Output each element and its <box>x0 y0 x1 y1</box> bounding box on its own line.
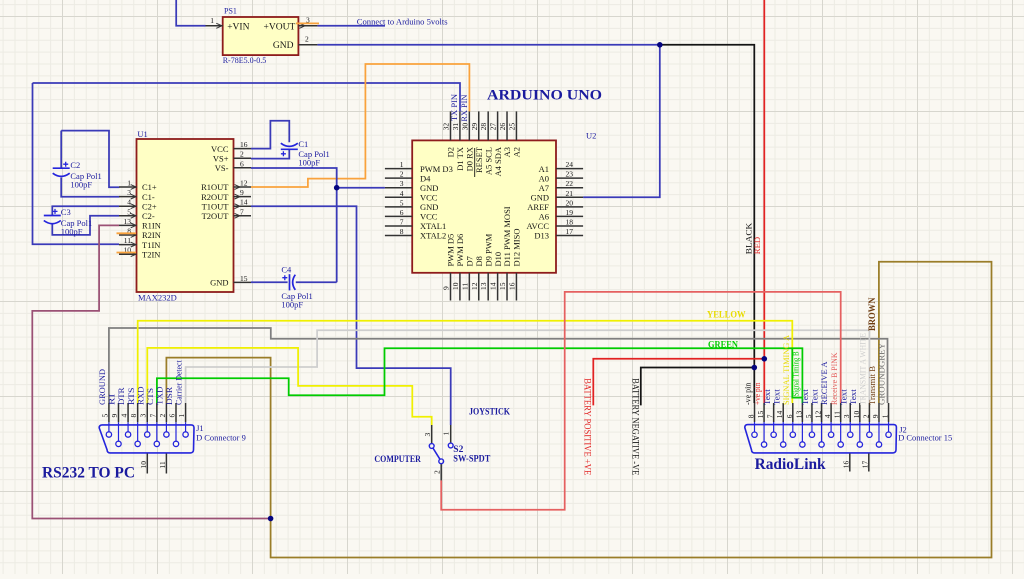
svg-text:19: 19 <box>566 208 574 217</box>
svg-text:3: 3 <box>400 179 404 188</box>
svg-text:10: 10 <box>852 410 861 418</box>
svg-text:16: 16 <box>507 282 516 290</box>
svg-text:C3: C3 <box>61 207 71 217</box>
svg-text:RECEIVE A: RECEIVE A <box>819 361 829 405</box>
svg-text:Text: Text <box>848 389 858 405</box>
svg-text:15: 15 <box>240 274 248 283</box>
capacitor C3 <box>44 207 92 237</box>
svg-text:30: 30 <box>460 123 469 131</box>
wire PS1 GND net (blue) <box>317 44 659 46</box>
svg-text:100pF: 100pF <box>298 158 320 168</box>
svg-text:2: 2 <box>861 414 870 418</box>
wire yellow J1 RTS to J2 SIGNAL TIMING A <box>138 321 793 403</box>
svg-text:14: 14 <box>775 410 784 418</box>
wire BATTERY POSITIVE stub <box>593 359 764 406</box>
label S2 / SW-SPDT <box>453 445 491 465</box>
svg-text:8: 8 <box>400 227 404 236</box>
svg-text:Carrier Detect: Carrier Detect <box>174 360 184 405</box>
wire BATTERY NEGATIVE stub <box>641 368 755 406</box>
wire brown J1 TXD to J2 Transmit B <box>166 262 991 558</box>
junction black battery <box>752 365 758 371</box>
svg-text:S2: S2 <box>453 445 463 455</box>
svg-text:22: 22 <box>566 179 574 188</box>
svg-text:8: 8 <box>747 414 756 418</box>
svg-text:100pF: 100pF <box>281 300 303 310</box>
svg-text:AREF: AREF <box>527 202 549 212</box>
svg-text:7: 7 <box>240 207 244 216</box>
svg-text:3: 3 <box>139 414 148 418</box>
wire C4 right side <box>296 281 337 283</box>
svg-text:AVCC: AVCC <box>526 221 549 231</box>
svg-text:T1IN: T1IN <box>142 240 160 250</box>
svg-text:10: 10 <box>451 282 460 290</box>
svg-text:GND: GND <box>273 41 294 51</box>
svg-text:28: 28 <box>479 123 488 131</box>
wire C3 bottom to U1 C2- <box>52 216 119 235</box>
J1 pin circles and links <box>106 422 188 446</box>
svg-text:R2OUT: R2OUT <box>201 192 229 202</box>
svg-text:12: 12 <box>470 282 479 290</box>
J1 pin stubs <box>109 403 186 422</box>
svg-text:D Connector 9: D Connector 9 <box>196 433 246 443</box>
svg-text:16: 16 <box>841 461 850 469</box>
svg-text:5: 5 <box>100 414 109 418</box>
svg-text:6: 6 <box>167 414 176 418</box>
svg-text:26: 26 <box>498 123 507 131</box>
J2 pin 16 <box>841 454 850 472</box>
J2 pin numbers <box>747 410 890 418</box>
wire white J1 Carrier Detect to J2 TRANSMIT A <box>186 330 870 403</box>
svg-text:U1: U1 <box>137 129 147 139</box>
wire from top edge to PS1 +VIN <box>176 0 205 26</box>
svg-text:3: 3 <box>127 188 131 197</box>
svg-text:PS1: PS1 <box>224 7 237 16</box>
svg-text:15: 15 <box>498 282 507 290</box>
S2 pin numbers <box>423 432 451 475</box>
svg-text:DTR: DTR <box>116 387 126 405</box>
svg-text:12: 12 <box>814 410 823 418</box>
svg-text:D13: D13 <box>534 231 549 241</box>
PS1 pin 3 <box>296 16 319 29</box>
svg-text:2: 2 <box>240 150 244 159</box>
svg-text:R-78E5.0-0.5: R-78E5.0-0.5 <box>223 56 267 65</box>
svg-text:2: 2 <box>158 414 167 418</box>
wire C2 bottom to U1 C1- <box>61 178 119 197</box>
svg-text:2: 2 <box>400 170 404 179</box>
svg-text:RED: RED <box>752 237 762 254</box>
wire U1 T1IN to U2 D1 TX (top) <box>33 83 461 111</box>
wire U1 T1OUT to S2 pin 1 <box>251 206 451 425</box>
svg-text:BROWN: BROWN <box>868 297 878 331</box>
capacitor C2 <box>53 160 102 189</box>
svg-text:TX PIN: TX PIN <box>450 94 459 121</box>
svg-text:16: 16 <box>240 140 248 149</box>
svg-text:VS-: VS- <box>215 163 229 173</box>
wire RED net to J2 pin 15 <box>763 0 765 403</box>
J2 pin labels <box>743 333 887 405</box>
svg-text:5: 5 <box>127 207 131 216</box>
svg-text:R1IN: R1IN <box>142 221 161 231</box>
svg-text:C4: C4 <box>281 265 292 275</box>
svg-text:VCC: VCC <box>420 193 438 203</box>
svg-text:+VOUT: +VOUT <box>264 23 296 33</box>
svg-text:32: 32 <box>442 123 451 131</box>
U1 right pins 16,2,6,12,9,14,7,15 <box>201 140 251 288</box>
svg-text:BATTERY POSITIVE +VE: BATTERY POSITIVE +VE <box>583 378 593 475</box>
svg-text:100pF: 100pF <box>61 227 83 237</box>
svg-text:8: 8 <box>129 414 138 418</box>
J1 pin numbers <box>100 414 186 418</box>
underline for D0 RX pin name <box>474 148 476 177</box>
connector J1 D Connector 9 body <box>99 425 194 453</box>
svg-text:-ve pin: -ve pin <box>743 382 753 405</box>
svg-text:SIGNAL TIMING A: SIGNAL TIMING A <box>781 334 791 405</box>
svg-text:GROUNDGREY: GROUNDGREY <box>877 343 887 405</box>
svg-text:ARDUINO UNO: ARDUINO UNO <box>487 88 602 104</box>
U2 top pins 32-25 <box>442 111 522 176</box>
svg-text:13: 13 <box>124 217 132 226</box>
svg-text:GND: GND <box>420 202 438 212</box>
svg-text:29: 29 <box>470 123 479 131</box>
svg-text:Text: Text <box>771 389 781 405</box>
J1 pin 11 <box>158 454 167 474</box>
svg-text:DSR: DSR <box>164 387 174 405</box>
svg-text:11: 11 <box>833 411 842 418</box>
IC U2 Arduino Uno body <box>412 140 556 272</box>
svg-text:1: 1 <box>177 414 186 418</box>
svg-text:Text: Text <box>838 389 848 405</box>
svg-text:D12 MISO: D12 MISO <box>512 228 522 266</box>
svg-text:GND: GND <box>531 193 549 203</box>
PS1 pin 1 <box>206 16 223 28</box>
svg-text:VS+: VS+ <box>213 153 229 163</box>
svg-text:GREEN: GREEN <box>708 341 738 351</box>
wire green loop around Signal Timing B label <box>792 349 802 398</box>
junction maroon/brown <box>268 516 274 522</box>
svg-text:TXD: TXD <box>155 387 165 406</box>
svg-text:9: 9 <box>110 414 119 418</box>
wire into C2 plate <box>60 131 62 168</box>
svg-text:Receive B PINK: Receive B PINK <box>829 352 839 405</box>
svg-text:2: 2 <box>305 35 309 44</box>
svg-text:+VIN: +VIN <box>227 23 249 33</box>
U1 orange marks on pins 8 and 10 <box>117 233 137 252</box>
svg-text:D Connector 15: D Connector 15 <box>898 433 952 443</box>
J2 pin stubs <box>755 403 889 422</box>
svg-text:RadioLink: RadioLink <box>755 456 826 473</box>
svg-text:1: 1 <box>442 432 451 436</box>
J2 pin 17 <box>860 454 869 472</box>
U2 left pins 1-8 <box>385 160 453 241</box>
svg-text:4: 4 <box>120 414 129 418</box>
svg-text:4: 4 <box>127 198 131 207</box>
svg-text:RS232 TO PC: RS232 TO PC <box>42 465 135 482</box>
svg-text:GND: GND <box>420 183 438 193</box>
svg-text:14: 14 <box>489 282 498 290</box>
svg-text:TRANSMIT A WHITE: TRANSMIT A WHITE <box>858 333 868 405</box>
svg-text:C1+: C1+ <box>142 182 157 192</box>
svg-text:C2: C2 <box>70 160 80 170</box>
svg-text:Signal Timing B: Signal Timing B <box>790 351 800 396</box>
svg-text:18: 18 <box>566 218 574 227</box>
svg-text:T2OUT: T2OUT <box>202 211 230 221</box>
svg-text:23: 23 <box>566 170 574 179</box>
svg-text:YELLOW: YELLOW <box>707 311 746 321</box>
wire orange U1 R1OUT to U2 D0 RX <box>251 64 469 187</box>
svg-text:RXD: RXD <box>135 387 145 406</box>
svg-text:6: 6 <box>400 208 404 217</box>
svg-text:12: 12 <box>240 179 248 188</box>
svg-text:7: 7 <box>148 414 157 418</box>
svg-text:T2IN: T2IN <box>142 249 160 259</box>
svg-text:25: 25 <box>507 123 516 131</box>
svg-text:T1OUT: T1OUT <box>202 201 230 211</box>
wire PS1 +VOUT to Arduino 5V label <box>317 25 385 27</box>
svg-text:9: 9 <box>240 188 244 197</box>
wire U1 VS- down to C4 <box>251 168 337 282</box>
svg-text:17: 17 <box>860 461 869 469</box>
svg-text:7: 7 <box>766 414 775 418</box>
svg-text:15: 15 <box>756 410 765 418</box>
svg-text:11: 11 <box>158 461 167 468</box>
svg-text:10: 10 <box>139 461 148 469</box>
svg-text:13: 13 <box>794 410 803 418</box>
svg-text:XTAL1: XTAL1 <box>420 221 446 231</box>
capacitor C4 <box>281 265 312 310</box>
svg-text:Text: Text <box>800 389 810 405</box>
U2 bottom pins 9-16 <box>442 206 522 300</box>
svg-text:C2-: C2- <box>142 211 155 221</box>
svg-text:RTS: RTS <box>126 387 136 405</box>
J1 pin 10 <box>139 454 148 474</box>
voltage regulator PS1 R-78E5.0-0.5 <box>223 7 299 66</box>
U2 right pins 24-17 <box>526 160 583 241</box>
svg-text:1: 1 <box>400 160 404 169</box>
svg-text:C1: C1 <box>298 139 308 149</box>
svg-text:5: 5 <box>804 414 813 418</box>
svg-text:9: 9 <box>442 286 451 290</box>
svg-text:4: 4 <box>400 189 404 198</box>
wire C2 top to U1 C1+ <box>61 131 119 188</box>
svg-text:2: 2 <box>433 470 442 474</box>
svg-text:A0: A0 <box>539 173 549 183</box>
svg-text:+ve pin: +ve pin <box>752 382 762 405</box>
svg-text:RI: RI <box>107 394 117 405</box>
svg-text:Transmit B: Transmit B <box>867 366 877 405</box>
svg-text:CTS: CTS <box>145 388 155 405</box>
svg-text:27: 27 <box>489 123 498 131</box>
svg-text:PWM D3: PWM D3 <box>420 164 453 174</box>
svg-text:A1: A1 <box>539 164 549 174</box>
wire green J1 CTS to J2 Signal Timing B <box>157 348 803 403</box>
J1 pin labels <box>97 360 184 405</box>
svg-text:C2+: C2+ <box>142 201 157 211</box>
svg-text:C1-: C1- <box>142 192 155 202</box>
wire C1 to U1 VS+ <box>251 149 289 158</box>
J2 pin circles and links <box>752 422 891 447</box>
svg-text:A7: A7 <box>539 183 549 193</box>
svg-text:XTAL2: XTAL2 <box>420 231 446 241</box>
svg-text:21: 21 <box>566 189 574 198</box>
svg-text:4: 4 <box>823 414 832 418</box>
svg-text:GND: GND <box>210 278 228 288</box>
svg-text:1: 1 <box>127 179 131 188</box>
svg-text:14: 14 <box>240 198 248 207</box>
PS1 pin 2 <box>298 35 317 45</box>
svg-text:R2IN: R2IN <box>142 230 161 240</box>
wire left vertical to U1 T1IN <box>33 83 120 244</box>
wire grey J1 GROUND to J2 GROUNDGREY <box>109 328 888 403</box>
svg-text:6: 6 <box>240 159 244 168</box>
svg-text:MAX232D: MAX232D <box>138 293 177 303</box>
svg-text:Connect to Arduino 5volts: Connect to Arduino 5volts <box>357 16 448 26</box>
junction red battery <box>762 356 768 362</box>
junction blue/black top <box>657 42 663 48</box>
junction VS- net <box>334 185 340 191</box>
svg-text:3: 3 <box>306 16 310 25</box>
wire maroon U1 R1IN net <box>32 225 270 518</box>
svg-text:11: 11 <box>460 283 469 290</box>
wire pink S2 common to J2 Receive B <box>441 292 841 510</box>
svg-text:GROUND: GROUND <box>97 369 107 405</box>
svg-text:6: 6 <box>785 414 794 418</box>
IC U1 MAX232D body <box>137 139 234 292</box>
svg-text:100pF: 100pF <box>70 179 92 189</box>
wire U1 GND to C4 left <box>251 281 288 283</box>
svg-text:Text: Text <box>762 389 772 405</box>
wire blue to U2 pin 21 GND <box>583 45 660 198</box>
svg-text:A6: A6 <box>539 212 549 222</box>
svg-text:3: 3 <box>842 414 851 418</box>
wire yellow J1 RXD to S2 pin 3 <box>147 348 431 425</box>
svg-text:COMPUTER: COMPUTER <box>374 455 421 465</box>
svg-text:24: 24 <box>566 160 574 169</box>
svg-text:5: 5 <box>400 198 404 207</box>
svg-text:20: 20 <box>566 198 574 207</box>
svg-text:U2: U2 <box>586 130 596 140</box>
wire tee to U2 pin 3 GND <box>337 187 385 189</box>
svg-text:11: 11 <box>124 236 131 245</box>
wire BLACK net to J2 pin 8 <box>660 45 755 403</box>
svg-text:JOYSTICK: JOYSTICK <box>469 408 511 418</box>
svg-text:RX PIN: RX PIN <box>460 94 469 121</box>
svg-text:VCC: VCC <box>420 212 438 222</box>
svg-text:Text: Text <box>810 389 820 405</box>
svg-text:D4: D4 <box>420 173 431 183</box>
wire U1 C2+ to C3 plate <box>52 206 119 215</box>
svg-text:31: 31 <box>451 123 460 131</box>
svg-text:3: 3 <box>423 433 432 437</box>
capacitor C1 <box>281 139 330 168</box>
svg-text:9: 9 <box>871 414 880 418</box>
svg-text:BATTERY NEGATIVE -VE: BATTERY NEGATIVE -VE <box>631 378 641 475</box>
U1 left pins 1,3,4,5,13,8,11,10 <box>119 179 161 260</box>
svg-text:SW-SPDT: SW-SPDT <box>453 455 491 465</box>
svg-text:7: 7 <box>400 218 404 227</box>
svg-text:1: 1 <box>881 414 890 418</box>
wire U1 VCC up to C1 <box>251 121 289 149</box>
svg-text:A2: A2 <box>512 147 522 157</box>
switch S2 SW-SPDT <box>429 425 453 480</box>
svg-text:R1OUT: R1OUT <box>201 182 229 192</box>
connector J2 D Connector 15 body <box>745 425 897 453</box>
svg-text:VCC: VCC <box>211 144 229 154</box>
U1 reference labels <box>137 129 176 303</box>
svg-text:17: 17 <box>566 227 574 236</box>
svg-text:1: 1 <box>210 16 214 25</box>
svg-text:13: 13 <box>479 282 488 290</box>
